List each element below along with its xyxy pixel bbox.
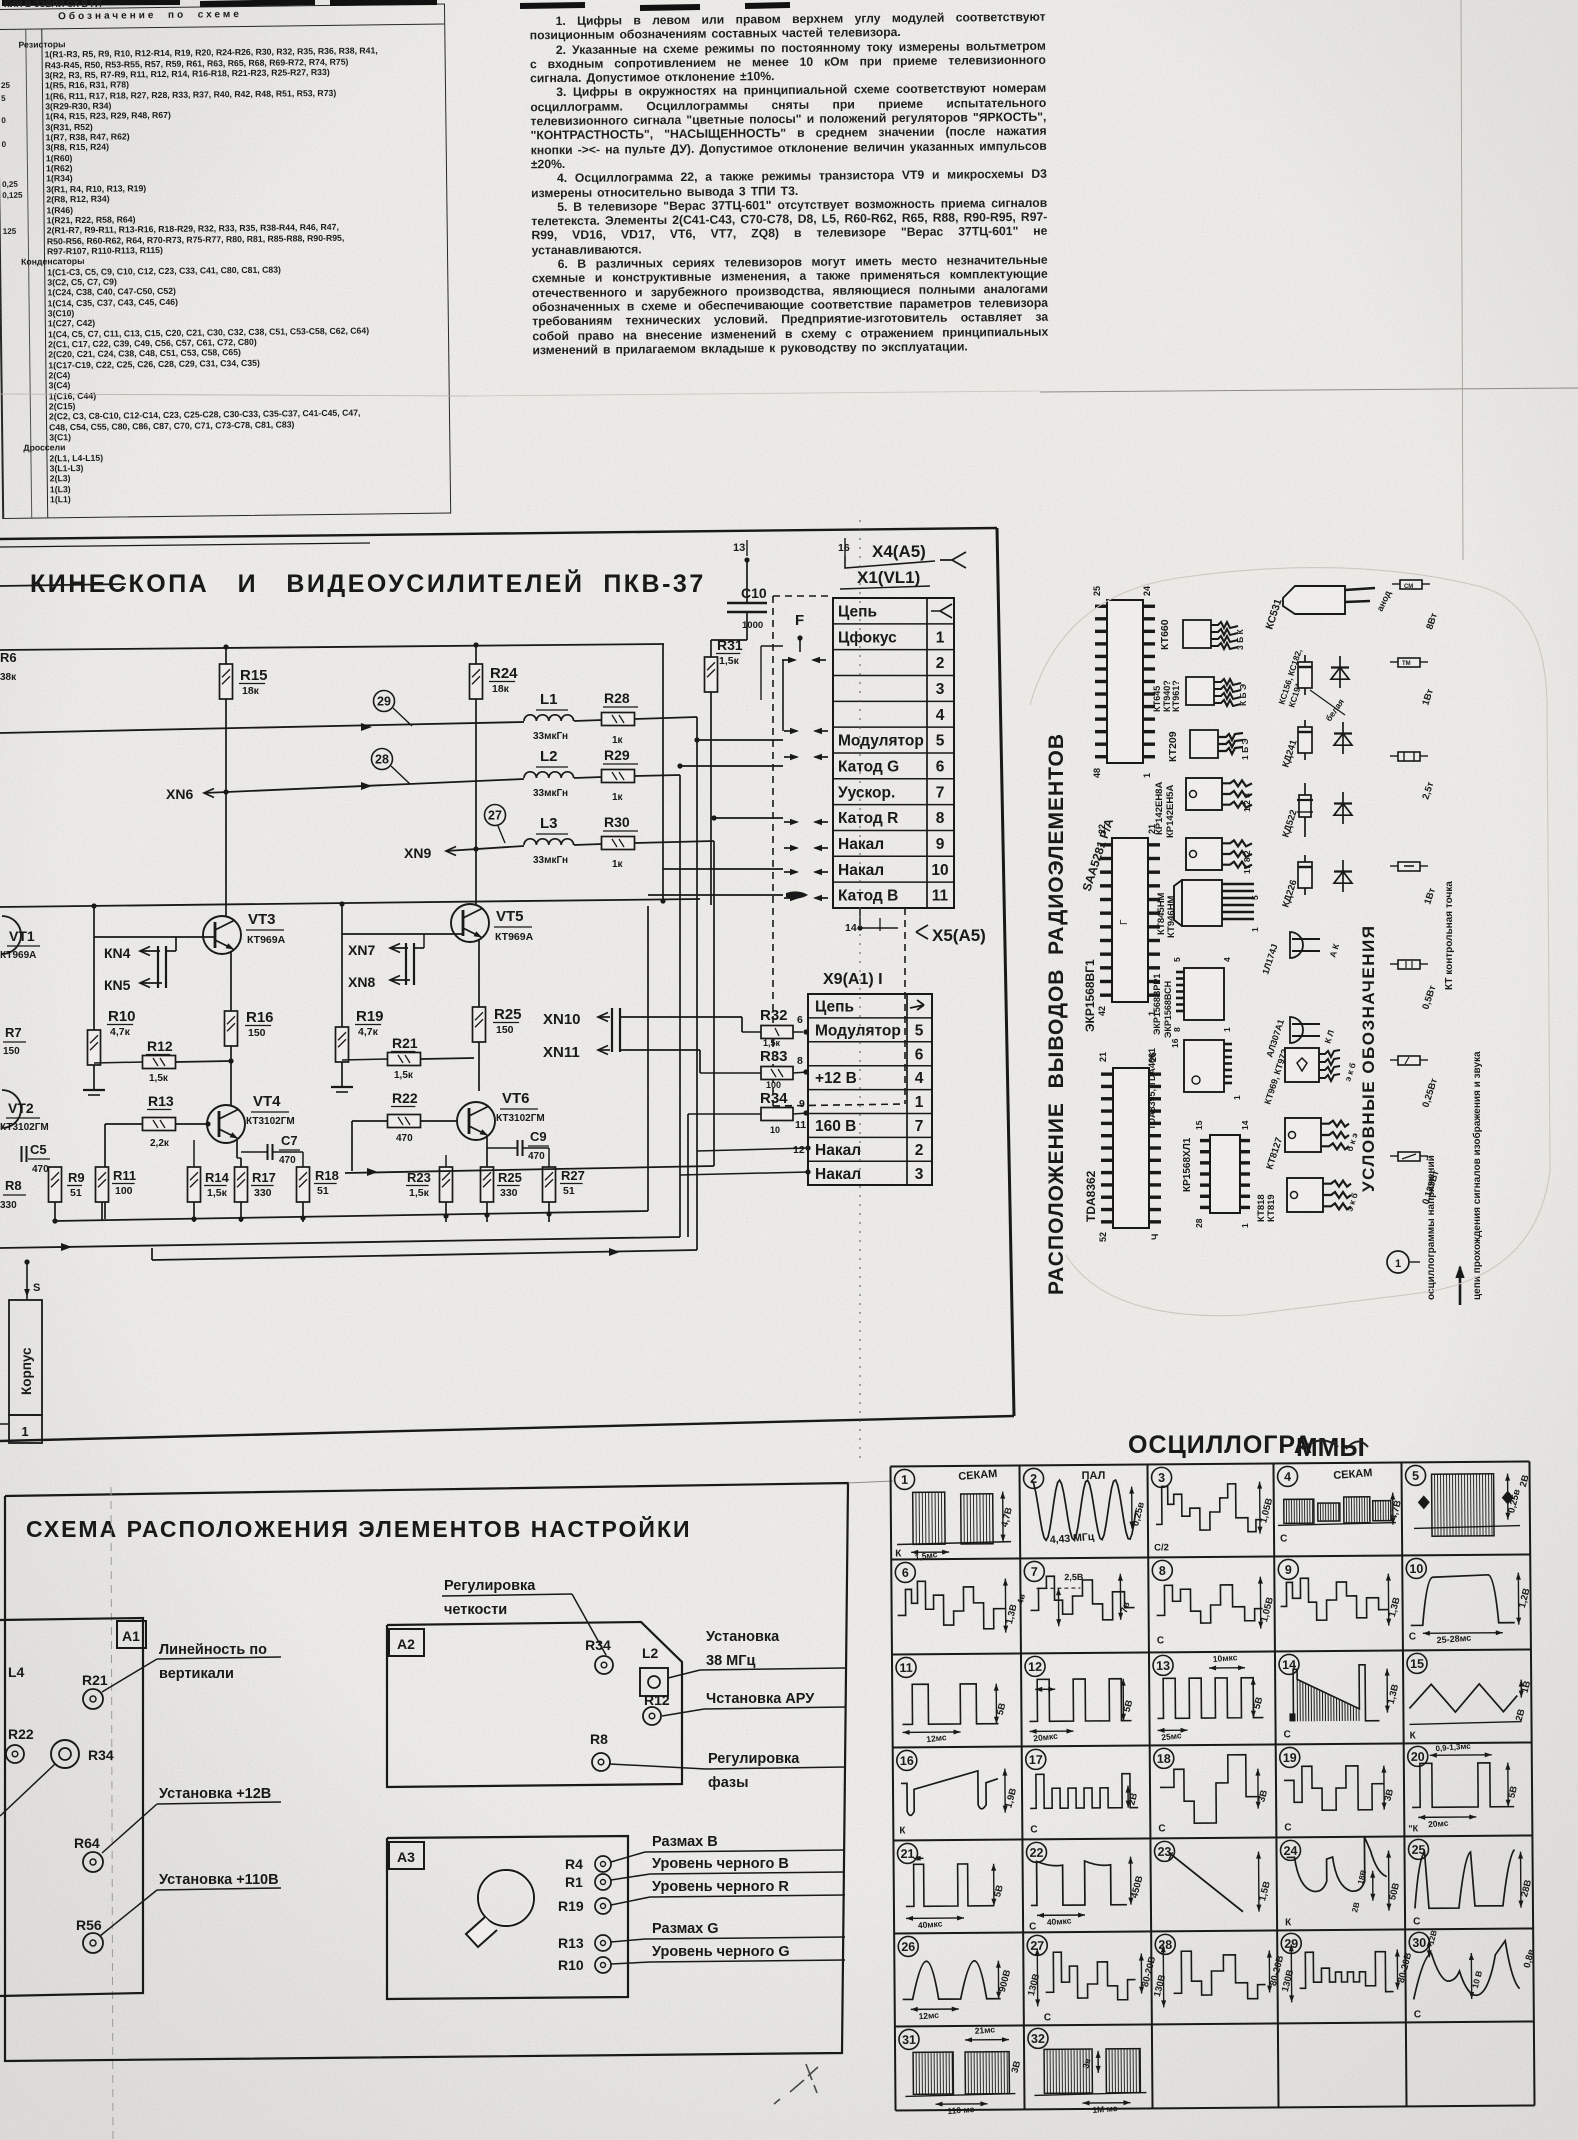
oscillogram 19 steps bbox=[1280, 1747, 1300, 1767]
svg-text:5: 5 bbox=[915, 1022, 924, 1039]
svg-text:51: 51 bbox=[317, 1185, 329, 1197]
oscillogram 32 hatched blocks bbox=[1028, 2028, 1048, 2048]
svg-text:150: 150 bbox=[496, 1024, 514, 1036]
svg-text:ОСЦИЛЛОГРА: ОСЦИЛЛОГРА bbox=[1128, 1431, 1313, 1459]
oscillogram 25 rising curves bbox=[1408, 1839, 1428, 1859]
svg-text:18: 18 bbox=[1157, 1752, 1171, 1766]
resistor power symbol 0.125W bbox=[1398, 1152, 1420, 1161]
component list table bbox=[0, 4, 451, 519]
svg-text:24: 24 bbox=[1284, 1844, 1298, 1858]
svg-text:1: 1 bbox=[901, 1473, 908, 1487]
svg-text:КТ969А: КТ969А bbox=[0, 950, 36, 961]
svg-text:XN11: XN11 bbox=[543, 1044, 580, 1061]
svg-text:Г: Г bbox=[1119, 919, 1130, 925]
svg-text:22: 22 bbox=[1097, 824, 1107, 834]
svg-text:R17: R17 bbox=[252, 1170, 276, 1185]
svg-text:R21: R21 bbox=[82, 1672, 108, 1688]
wire XN11 to right bbox=[620, 1049, 700, 1051]
svg-text:VT1: VT1 bbox=[9, 928, 35, 944]
svg-text:XN8: XN8 bbox=[348, 974, 375, 990]
resistor R16 bbox=[225, 1011, 238, 1046]
svg-text:Размах В: Размах В bbox=[652, 1834, 718, 1850]
pin arrow in X9 header bbox=[910, 1000, 924, 1010]
svg-text:R33: R33 bbox=[760, 1048, 788, 1065]
svg-text:10: 10 bbox=[1409, 1562, 1423, 1576]
svg-text:"К: "К bbox=[1408, 1823, 1418, 1833]
svg-text:XN6: XN6 bbox=[166, 786, 193, 802]
svg-text:1,5к: 1,5к bbox=[207, 1187, 228, 1199]
transistor VT6 bbox=[457, 1102, 495, 1140]
oscillogram 23 sawtooth bbox=[1154, 1841, 1174, 1861]
svg-text:10: 10 bbox=[931, 862, 948, 879]
oscillogram 26 rounded pulses bbox=[898, 1936, 918, 1956]
svg-text:Чстановка АРУ: Чстановка АРУ bbox=[706, 1691, 815, 1707]
svg-text:С: С bbox=[1280, 1533, 1287, 1544]
svg-text:вертикали: вертикали bbox=[159, 1666, 234, 1682]
svg-text:10мкс: 10мкс bbox=[1212, 1652, 1238, 1664]
transistor VT5 bbox=[475, 903, 477, 905]
svg-text:КР142ЕН5А: КР142ЕН5А bbox=[1165, 785, 1176, 838]
svg-text:С: С bbox=[1029, 1921, 1036, 1932]
svg-text:C9: C9 bbox=[530, 1129, 547, 1144]
node junction R15 top bbox=[223, 644, 228, 649]
svg-text:33мкГн: 33мкГн bbox=[533, 731, 568, 742]
label set +110V bbox=[157, 1888, 281, 1890]
ground under R19 bbox=[331, 1086, 353, 1088]
svg-text:8: 8 bbox=[797, 1055, 803, 1067]
svg-text:25: 25 bbox=[1092, 586, 1102, 596]
svg-text:R13: R13 bbox=[148, 1093, 174, 1109]
node junction XN6 bbox=[223, 789, 228, 794]
svg-text:КР1568ХЛ1: КР1568ХЛ1 bbox=[1182, 1137, 1193, 1192]
svg-text:Уровень черного R: Уровень черного R bbox=[652, 1879, 789, 1895]
svg-text:Линейность по: Линейность по bbox=[159, 1642, 267, 1658]
svg-text:1: 1 bbox=[21, 1424, 28, 1439]
svg-text:1: 1 bbox=[1250, 927, 1260, 932]
svg-text:С: С bbox=[1044, 2012, 1051, 2023]
inductor L1 bbox=[524, 715, 574, 721]
wire stub left top bbox=[0, 584, 126, 586]
oscillogram 5 burst block bbox=[1405, 1465, 1425, 1485]
svg-text:КТ3102ГМ: КТ3102ГМ bbox=[496, 1113, 545, 1124]
svg-text:7: 7 bbox=[1031, 1565, 1038, 1579]
svg-text:Уровень черного G: Уровень черного G bbox=[652, 1944, 790, 1960]
svg-text:цепи прохождения сигналов и: цепи прохождения сигналов изображения и … bbox=[1471, 1051, 1483, 1300]
svg-text:330: 330 bbox=[0, 1200, 17, 1211]
wire top page edge marks bbox=[2, 2, 790, 8]
svg-text:330: 330 bbox=[254, 1187, 272, 1199]
svg-text:ЭКР1568ВРР1: ЭКР1568ВРР1 bbox=[1152, 974, 1162, 1035]
node m bbox=[711, 815, 716, 820]
svg-text:R34: R34 bbox=[585, 1637, 611, 1653]
svg-text:R12: R12 bbox=[147, 1038, 173, 1054]
svg-text:4: 4 bbox=[1222, 957, 1232, 962]
svg-text:R56: R56 bbox=[76, 1917, 102, 1933]
svg-text:X9(A1) I: X9(A1) I bbox=[823, 971, 883, 988]
svg-text:С: С bbox=[1413, 1916, 1420, 1927]
svg-text:R10: R10 bbox=[558, 1957, 584, 1973]
svg-text:42: 42 bbox=[1097, 1006, 1107, 1016]
svg-text:С/2: С/2 bbox=[1154, 1542, 1169, 1553]
svg-text:R11: R11 bbox=[113, 1168, 136, 1183]
svg-text:1: 1 bbox=[1222, 1027, 1232, 1032]
connector bars XN10 XN11 bbox=[611, 1008, 613, 1052]
symbol signal path arrow bbox=[1459, 1267, 1462, 1305]
svg-text:КР142ЕН8А: КР142ЕН8А bbox=[1154, 782, 1165, 835]
svg-text:УСЛОВНЫЕ ОБОЗНАЧЕНИЯ: УСЛОВНЫЕ ОБОЗНАЧЕНИЯ bbox=[1359, 925, 1378, 1192]
svg-text:22: 22 bbox=[1030, 1846, 1044, 1860]
svg-text:4,7к: 4,7к bbox=[110, 1026, 131, 1038]
oscillogram 4 SECAM packets bbox=[1277, 1466, 1297, 1486]
svg-text:21: 21 bbox=[901, 1847, 915, 1861]
svg-text:3: 3 bbox=[915, 1166, 924, 1183]
svg-text:18к: 18к bbox=[242, 685, 260, 697]
svg-text:6: 6 bbox=[936, 758, 945, 775]
svg-text:R9: R9 bbox=[68, 1170, 85, 1185]
oscillogram 22 sagging pulses bbox=[1026, 1842, 1046, 1862]
svg-text:38к: 38к bbox=[0, 672, 17, 683]
spark gap nakal 10 bbox=[784, 871, 797, 873]
svg-text:Накал: Накал bbox=[838, 862, 884, 879]
oscillogram 7 staircase with dims bbox=[1024, 1561, 1044, 1581]
svg-text:R16: R16 bbox=[246, 1009, 274, 1026]
svg-text:4: 4 bbox=[936, 707, 945, 724]
connector table X9(A1) bbox=[808, 994, 932, 1185]
svg-text:XN9: XN9 bbox=[404, 845, 431, 861]
svg-text:четкости: четкости bbox=[444, 1602, 507, 1618]
wire kinescope leads bbox=[697, 739, 783, 741]
svg-text:1к: 1к bbox=[612, 792, 624, 803]
oscillogram 20 pulses with dims bbox=[1408, 1746, 1428, 1766]
svg-text:Установка: Установка bbox=[706, 1629, 780, 1645]
svg-text:R25: R25 bbox=[498, 1170, 522, 1185]
svg-text:12: 12 bbox=[793, 1144, 805, 1156]
oscillogram 27 staircase 130V bbox=[1027, 1935, 1047, 1955]
resistor power symbol 0.25W bbox=[1398, 1056, 1420, 1065]
svg-text:28: 28 bbox=[1158, 1938, 1172, 1952]
fold line vertical over schematic bbox=[859, 520, 861, 1460]
svg-text:470: 470 bbox=[396, 1133, 413, 1144]
oscillogram 28 staircase 130V bbox=[1155, 1934, 1175, 1954]
resistor R22 bbox=[388, 1115, 421, 1128]
svg-text:R10: R10 bbox=[108, 1008, 136, 1025]
node i bbox=[484, 1212, 489, 1217]
svg-text:X5(A5): X5(A5) bbox=[932, 926, 986, 945]
transistor VT3 bbox=[225, 906, 227, 916]
oscillogram 30 curves bbox=[1409, 1932, 1429, 1952]
transistor VT4 bbox=[207, 1105, 245, 1143]
svg-text:Уускор.: Уускор. bbox=[838, 784, 895, 801]
svg-text:A1: A1 bbox=[122, 1628, 140, 1644]
svg-text:C7: C7 bbox=[281, 1133, 298, 1148]
inductor L3 bbox=[524, 839, 574, 845]
svg-text:32: 32 bbox=[1031, 2032, 1045, 2046]
svg-text:16: 16 bbox=[900, 1754, 914, 1768]
spark gap focus bbox=[782, 659, 795, 661]
oscillogram 6 staircase bbox=[895, 1562, 915, 1582]
svg-text:1: 1 bbox=[936, 629, 945, 646]
svg-text:470: 470 bbox=[32, 1164, 49, 1175]
svg-text:R25: R25 bbox=[494, 1006, 522, 1023]
svg-text:1,5к: 1,5к bbox=[763, 1038, 781, 1048]
svg-text:R12: R12 bbox=[644, 1692, 670, 1708]
svg-text:К Б Э: К Б Э bbox=[1238, 684, 1248, 706]
svg-text:1,5к: 1,5к bbox=[719, 655, 740, 667]
svg-text:6: 6 bbox=[915, 1046, 924, 1063]
svg-text:R13: R13 bbox=[558, 1935, 584, 1951]
svg-text:R27: R27 bbox=[561, 1168, 585, 1183]
svg-text:КТ645: КТ645 bbox=[1152, 686, 1162, 712]
wire VT3 emitter to R16 bbox=[230, 951, 232, 1011]
svg-text:КТ3102ГМ: КТ3102ГМ bbox=[246, 1116, 295, 1127]
svg-text:3: 3 bbox=[1158, 1471, 1165, 1485]
svg-text:1,5к: 1,5к bbox=[409, 1187, 430, 1199]
svg-text:15: 15 bbox=[1410, 1657, 1424, 1671]
capacitor C7 bbox=[267, 1144, 269, 1160]
svg-text:КТ контрольная точка: КТ контрольная точка bbox=[1444, 881, 1455, 990]
svg-text:F: F bbox=[795, 612, 804, 629]
svg-text:9: 9 bbox=[799, 1098, 805, 1110]
svg-text:11: 11 bbox=[932, 888, 949, 905]
svg-text:R29: R29 bbox=[604, 747, 630, 763]
svg-text:40мкс: 40мкс bbox=[1046, 1915, 1072, 1927]
svg-text:Регулировка: Регулировка bbox=[708, 1751, 800, 1767]
resistor R23 bbox=[440, 1167, 453, 1202]
svg-text:Цепь: Цепь bbox=[838, 604, 877, 621]
oscillogram 12 pulses 20mks bbox=[1025, 1656, 1045, 1676]
svg-text:Катод В: Катод В bbox=[838, 888, 898, 905]
svg-text:R34: R34 bbox=[760, 1090, 788, 1107]
wire bottom bus 3 bbox=[152, 1250, 697, 1260]
svg-text:Установка +110В: Установка +110В bbox=[159, 1872, 279, 1888]
svg-text:10: 10 bbox=[770, 1125, 780, 1135]
resistor R29 bbox=[602, 770, 635, 783]
resistor R12 bbox=[94, 1062, 143, 1063]
oscillogram 31 hatched blocks bbox=[899, 2029, 919, 2049]
svg-text:С: С bbox=[1157, 1635, 1164, 1646]
resistor R14 bbox=[188, 1167, 201, 1202]
frame main schematic box bbox=[0, 528, 997, 539]
svg-text:29: 29 bbox=[377, 695, 391, 709]
oscillogram 17 pulse train bbox=[1026, 1749, 1046, 1769]
svg-text:21мс: 21мс bbox=[974, 2024, 995, 2036]
svg-text:R64: R64 bbox=[74, 1835, 100, 1851]
oscillogram 3 staircase bbox=[1151, 1467, 1171, 1487]
svg-text:С: С bbox=[1158, 1823, 1165, 1834]
svg-text:3 Б К: 3 Б К bbox=[1235, 628, 1245, 650]
oscillogram 13 pulses 10mks bbox=[1153, 1655, 1173, 1675]
dashed kinescope outline bbox=[772, 596, 774, 1106]
wire to X9 nakal bbox=[345, 1166, 714, 1173]
trimmer R34 on A1 bbox=[51, 1740, 79, 1768]
svg-text:48: 48 bbox=[1092, 768, 1102, 778]
oscillogram 10 trapezoid pulse bbox=[1406, 1558, 1426, 1578]
svg-text:R28: R28 bbox=[604, 690, 630, 706]
inductor L2 bbox=[524, 772, 574, 778]
node l bbox=[677, 763, 682, 768]
oscillogram 15 triangle wave bbox=[1407, 1653, 1427, 1673]
svg-text:330: 330 bbox=[500, 1187, 518, 1199]
svg-text:11: 11 bbox=[795, 1119, 806, 1131]
svg-text:С: С bbox=[1030, 1824, 1037, 1835]
svg-text:R1: R1 bbox=[565, 1874, 583, 1890]
resistor R11 bbox=[96, 1167, 109, 1202]
node 28 oscillogram bbox=[372, 749, 393, 770]
svg-text:Накал: Накал bbox=[815, 1166, 861, 1183]
svg-text:КN5: КN5 bbox=[104, 977, 131, 993]
svg-text:17: 17 bbox=[1029, 1753, 1043, 1767]
keyhole cutout on A3 bbox=[478, 1870, 534, 1926]
oscillogram 2 PAL sine bbox=[1024, 1468, 1044, 1488]
node c bbox=[660, 898, 665, 903]
label set +12V bbox=[157, 1802, 281, 1804]
svg-text:8: 8 bbox=[1159, 1564, 1166, 1578]
svg-text:1 2 3: 1 2 3 bbox=[1242, 793, 1252, 812]
svg-text:24: 24 bbox=[1142, 586, 1152, 596]
wire bottom bus 1 bbox=[55, 1211, 648, 1221]
node a bbox=[91, 903, 96, 908]
node b bbox=[339, 901, 344, 906]
fold outline around right panel bbox=[1030, 568, 1550, 1316]
svg-text:52: 52 bbox=[1098, 1232, 1108, 1242]
node e bbox=[191, 1216, 196, 1221]
svg-text:9: 9 bbox=[1285, 1563, 1292, 1577]
node d bbox=[52, 1218, 57, 1223]
diode symbol 4 bbox=[1342, 860, 1344, 892]
svg-text:20мс: 20мс bbox=[1428, 1818, 1449, 1830]
svg-text:Ч: Ч bbox=[1150, 1234, 1160, 1240]
svg-text:5: 5 bbox=[1172, 957, 1182, 962]
svg-text:L4: L4 bbox=[8, 1664, 25, 1680]
svg-text:1: 1 bbox=[1240, 1223, 1250, 1228]
svg-text:VT4: VT4 bbox=[253, 1093, 281, 1110]
connector bars XN7 XN8 bbox=[405, 943, 407, 985]
svg-text:1к: 1к bbox=[612, 859, 624, 870]
diode symbol 3 bbox=[1342, 792, 1344, 824]
svg-text:R14: R14 bbox=[205, 1170, 230, 1185]
svg-text:31: 31 bbox=[902, 2033, 916, 2047]
notes text block bbox=[530, 10, 1049, 358]
oscillogram 16 sawtooth with dip bbox=[897, 1750, 917, 1770]
svg-text:КТ969А: КТ969А bbox=[495, 931, 534, 943]
wire video line 1 (to L1) bbox=[0, 722, 524, 733]
module A2 box bbox=[387, 1622, 682, 1787]
svg-text:R18: R18 bbox=[315, 1168, 339, 1183]
fold line horizontal extension bbox=[848, 1481, 893, 1483]
svg-text:R32: R32 bbox=[760, 1007, 788, 1024]
svg-text:21: 21 bbox=[1098, 1052, 1108, 1062]
svg-text:1к: 1к bbox=[612, 735, 624, 746]
svg-text:100: 100 bbox=[115, 1185, 133, 1197]
svg-text:С: С bbox=[1284, 1822, 1291, 1833]
svg-text:2: 2 bbox=[936, 655, 945, 672]
connector Korpus bbox=[9, 1300, 42, 1415]
svg-text:4: 4 bbox=[915, 1070, 924, 1087]
svg-text:XN10: XN10 bbox=[543, 1011, 581, 1028]
svg-text:13: 13 bbox=[1156, 1659, 1170, 1673]
wire VT4 emitter bbox=[236, 1140, 238, 1158]
node VT4 base bbox=[205, 1121, 210, 1126]
IC package KR142EN with pins 17 8 2 bbox=[1186, 838, 1222, 870]
wire top supply bus bbox=[0, 644, 664, 650]
svg-text:VT6: VT6 bbox=[502, 1090, 530, 1107]
oscillogram 11 two pulses bbox=[896, 1657, 916, 1677]
oscillogram 21 narrow pulses bbox=[897, 1843, 917, 1863]
svg-text:160 В: 160 В bbox=[815, 1118, 856, 1135]
frame adjustment layout box bbox=[5, 1483, 848, 2061]
resistor R28 bbox=[602, 713, 635, 726]
oscillogram 14 hatched sawtooth bbox=[1279, 1654, 1299, 1674]
svg-text:150: 150 bbox=[3, 1046, 20, 1057]
svg-text:23: 23 bbox=[1158, 1845, 1172, 1859]
svg-text:110 мс: 110 мс bbox=[947, 2104, 975, 2116]
node 27 oscillogram bbox=[485, 805, 506, 826]
node g bbox=[300, 1215, 305, 1220]
node h bbox=[443, 1213, 448, 1218]
wire bottom bus 2 bbox=[0, 1237, 680, 1248]
spark gap nakal 9 bbox=[784, 847, 797, 849]
svg-text:X1(VL1): X1(VL1) bbox=[857, 568, 920, 587]
svg-text:16: 16 bbox=[838, 542, 850, 554]
svg-text:КИНЕСКОПА И ВИДЕОУСИЛИТЕЛЕ: КИНЕСКОПА И ВИДЕОУСИЛИТЕЛЕЙ ПКВ-37 bbox=[30, 568, 706, 598]
svg-text:R30: R30 bbox=[604, 814, 630, 830]
svg-text:1,5к: 1,5к bbox=[149, 1073, 169, 1084]
svg-text:R8: R8 bbox=[590, 1731, 608, 1747]
resistor R27 bbox=[543, 1167, 556, 1202]
node k bbox=[694, 737, 699, 742]
node junction R24 top bbox=[473, 642, 478, 647]
svg-text:РАСПОЛОЖЕНИЕ ВЫВОДОВ РАДИОЭЛ: РАСПОЛОЖЕНИЕ ВЫВОДОВ РАДИОЭЛЕМЕНТОВ bbox=[1045, 733, 1068, 1295]
spark gap modulator bbox=[784, 730, 797, 732]
diode symbol 2 bbox=[1342, 722, 1344, 754]
wire mid bus bbox=[0, 899, 700, 907]
svg-text:8: 8 bbox=[936, 810, 945, 827]
svg-text:2,5В: 2,5В bbox=[1064, 1572, 1084, 1582]
symbol oscillogram reference bbox=[1387, 1251, 1409, 1273]
svg-text:Цфокус: Цфокус bbox=[838, 629, 897, 646]
svg-text:C10: C10 bbox=[741, 585, 767, 601]
node R12-VT4 bbox=[228, 1058, 233, 1063]
svg-text:R24: R24 bbox=[490, 665, 518, 682]
svg-text:TDA8395, TDA4661: TDA8395, TDA4661 bbox=[1147, 1048, 1157, 1130]
svg-text:1М мс: 1М мс bbox=[1092, 2103, 1118, 2115]
svg-text:L2: L2 bbox=[642, 1645, 659, 1661]
svg-text:8: 8 bbox=[1172, 1027, 1182, 1032]
svg-text:4,7к: 4,7к bbox=[358, 1026, 379, 1038]
node f bbox=[238, 1216, 243, 1221]
svg-text:R7: R7 bbox=[5, 1025, 22, 1040]
wire XN10 to right bbox=[620, 1016, 742, 1018]
svg-text:Катод G: Катод G bbox=[838, 758, 899, 775]
resistor R17 bbox=[235, 1167, 248, 1202]
svg-text:18к: 18к bbox=[492, 683, 510, 695]
svg-text:16: 16 bbox=[1170, 1038, 1180, 1048]
svg-text:19: 19 bbox=[1283, 1751, 1297, 1765]
svg-text:6: 6 bbox=[902, 1566, 909, 1580]
svg-text:ПАЛ: ПАЛ bbox=[1082, 1470, 1106, 1482]
fold line vertical bottom left bbox=[111, 1487, 113, 2140]
resistor R19 bbox=[341, 934, 343, 1027]
svg-text:15: 15 bbox=[1194, 1120, 1204, 1130]
oscillogram 8 staircase bbox=[1152, 1560, 1172, 1580]
svg-text:осциллограммы напряжений: осциллограммы напряжений bbox=[1426, 1155, 1437, 1300]
svg-text:3: 3 bbox=[936, 681, 945, 698]
svg-text:38 МГц: 38 МГц bbox=[706, 1653, 755, 1669]
svg-text:С: С bbox=[1409, 1631, 1416, 1642]
connector table X1(VL1) bbox=[833, 598, 954, 908]
svg-text:R34: R34 bbox=[88, 1747, 114, 1763]
resistor power symbol 2.5W bbox=[1398, 752, 1420, 761]
